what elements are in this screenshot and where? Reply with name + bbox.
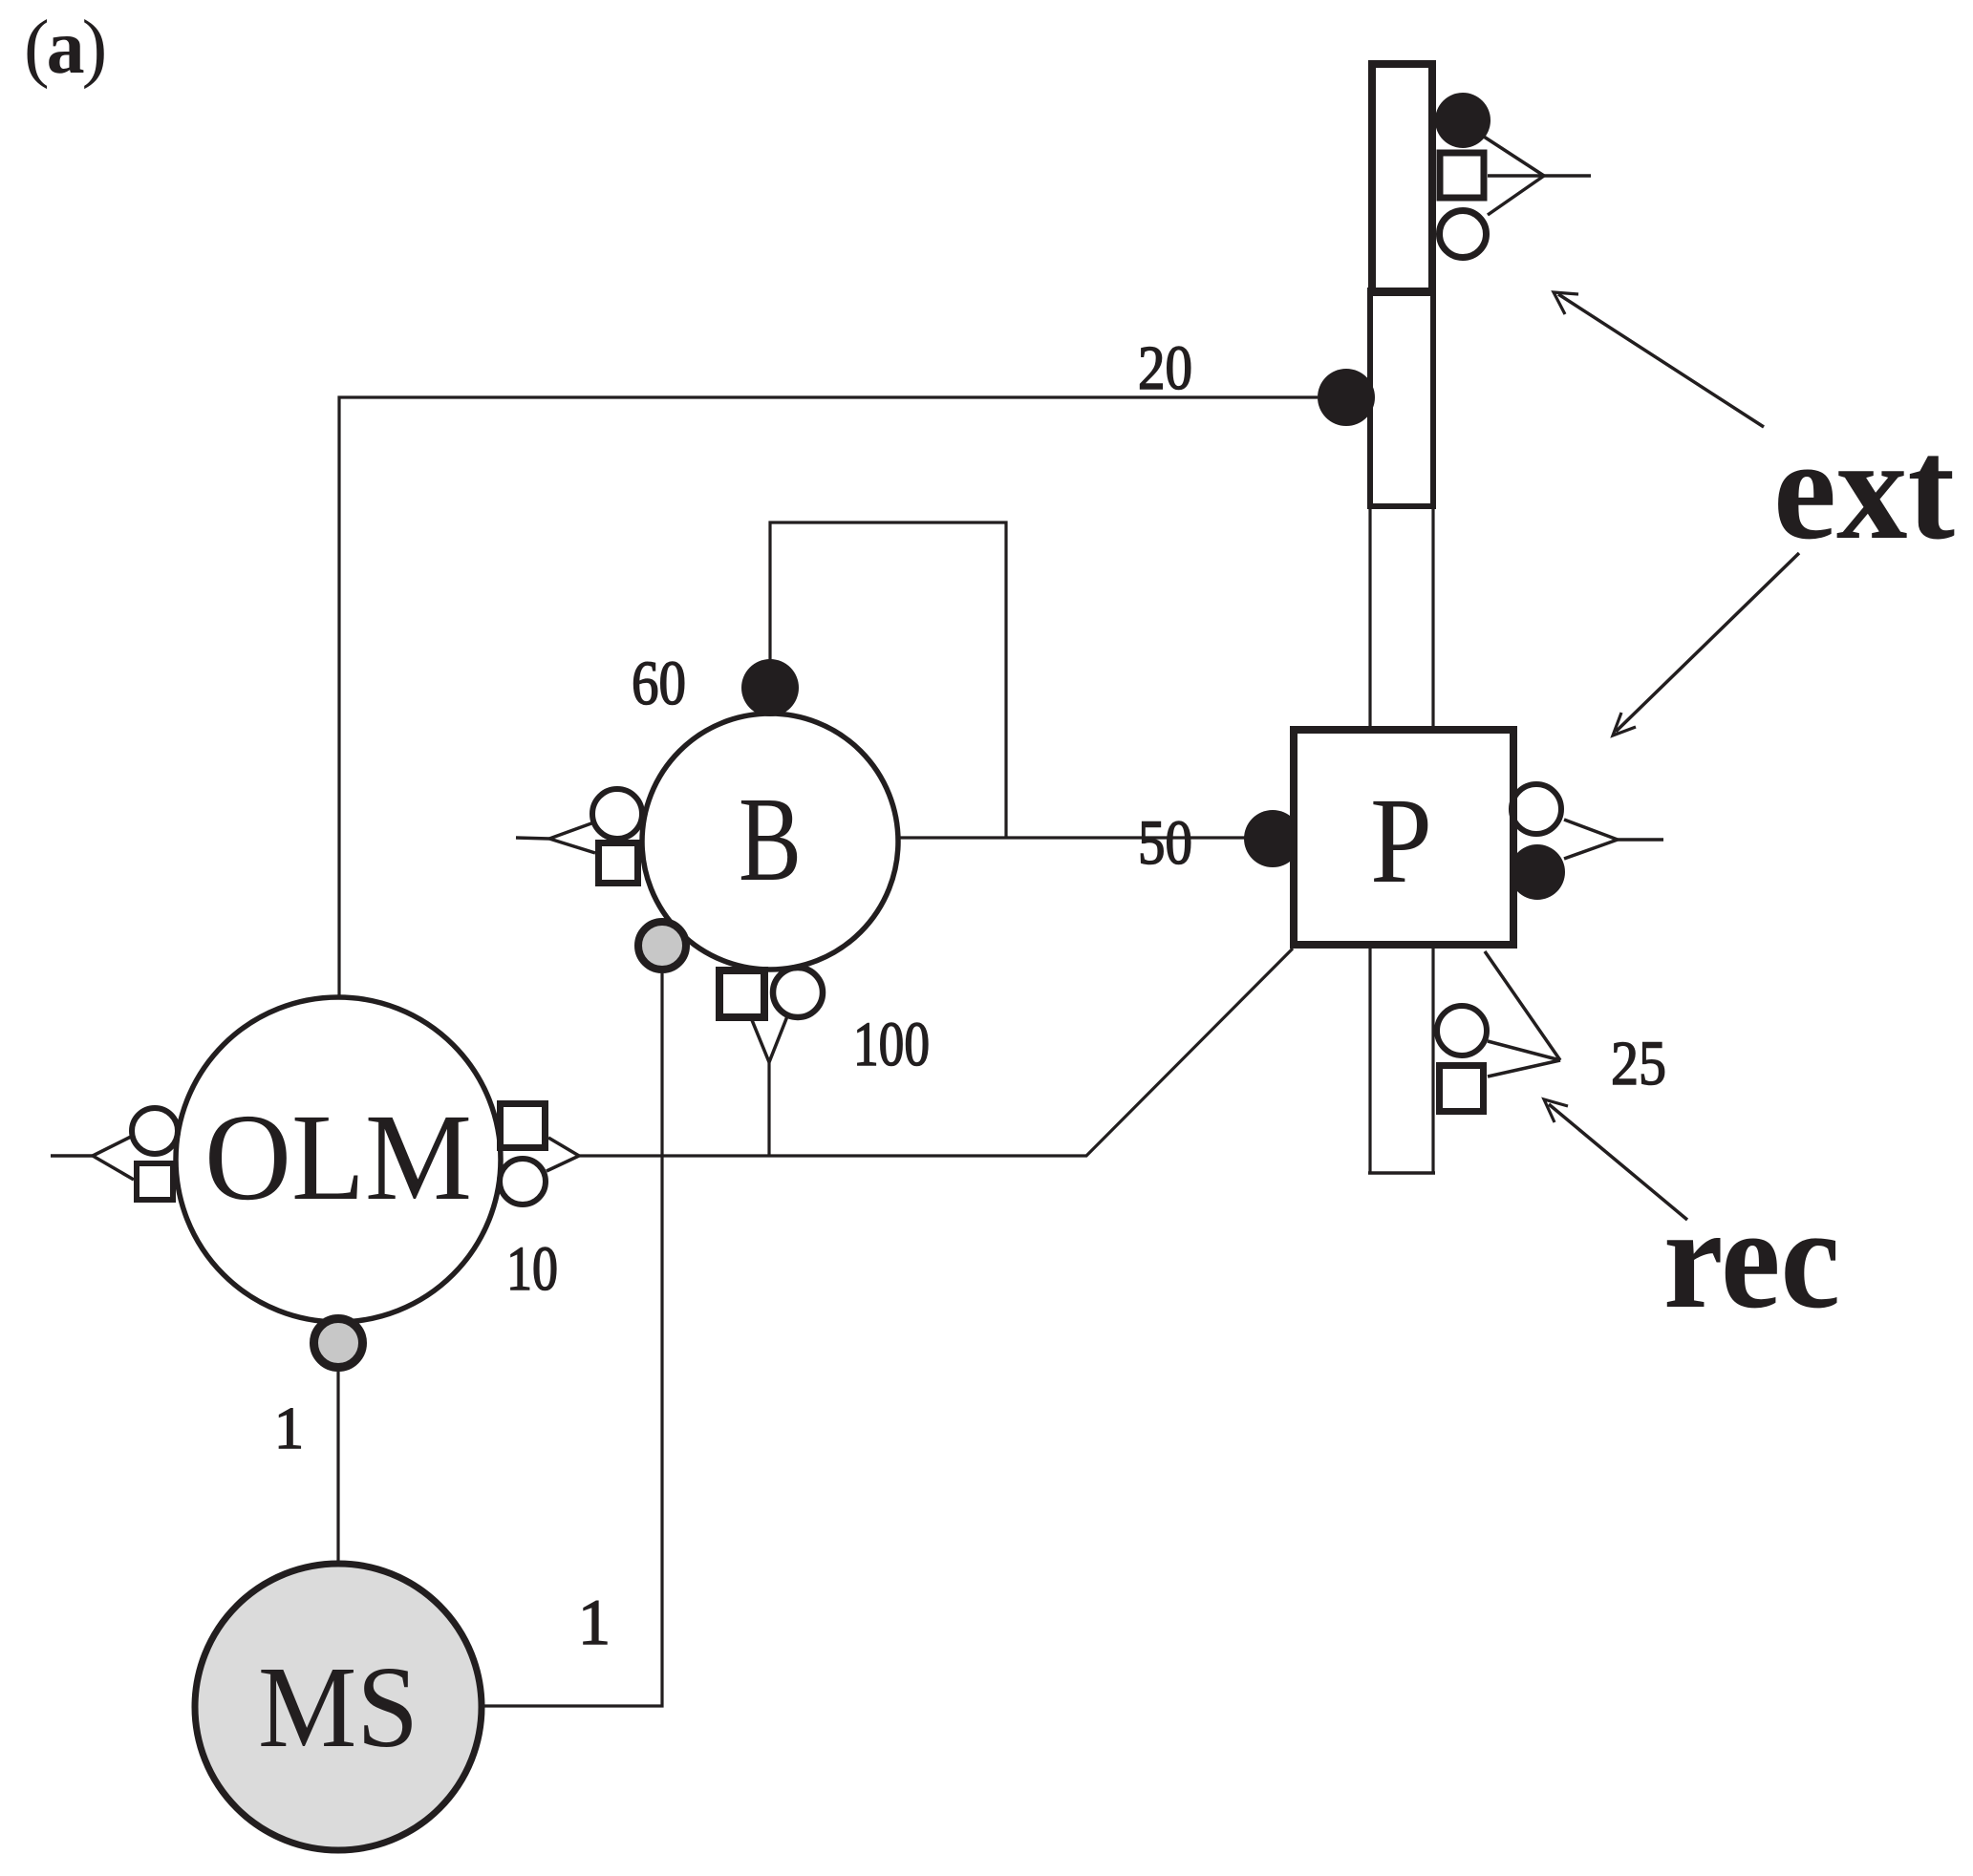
- synapse 1 from MS on OLM: gray bouton: [314, 1319, 363, 1368]
- B output synapse 100: open circle: [773, 968, 823, 1017]
- P cell apical dendrite: proximal segment (thin): [1370, 509, 1433, 728]
- wire 100: down to rec wire: [767, 1062, 770, 1156]
- svg-text:10: 10: [506, 1234, 558, 1304]
- synapse 1 from MS on B: gray bouton: [638, 922, 686, 970]
- ext input synapse on B: open circle: [592, 789, 642, 839]
- svg-text:MS: MS: [258, 1643, 418, 1772]
- wire rec: OLM axon to P basal dendrite: [579, 949, 1293, 1156]
- svg-text:ext: ext: [1773, 409, 1955, 569]
- B cell body: [642, 714, 898, 970]
- wire: B recurrent loop to B/P wire: [770, 522, 1006, 837]
- B output synapse 100: square receptor: [719, 970, 764, 1017]
- svg-text:60: 60: [632, 649, 686, 718]
- svg-text:P: P: [1370, 773, 1432, 908]
- OLM output synapse 10: square receptor: [501, 1104, 546, 1148]
- synapse 20: black bouton on dendrite: [1318, 369, 1375, 426]
- ext input synapse on OLM: open circle: [132, 1108, 178, 1154]
- svg-text:1: 1: [274, 1396, 304, 1461]
- svg-text:50: 50: [1138, 808, 1192, 878]
- svg-text:OLM: OLM: [204, 1089, 472, 1226]
- wire 1: MS axon to B: [483, 973, 662, 1706]
- svg-text:25: 25: [1611, 1029, 1666, 1098]
- svg-text:(a): (a): [24, 6, 105, 90]
- wire 20: B axon to P dendrite: [339, 397, 1318, 999]
- rec arrow: [1544, 1099, 1687, 1220]
- svg-text:1: 1: [578, 1586, 611, 1658]
- rec axon from P to synapse 25: [1485, 951, 1560, 1077]
- ext synapse group on distal dendrite: square receptor: [1440, 153, 1484, 198]
- OLM output V to rec axon: [547, 1138, 579, 1171]
- svg-text:100: 100: [853, 1010, 930, 1079]
- synapse 50: black bouton on P: [1244, 810, 1301, 867]
- panel label (a): [24, 6, 105, 90]
- ext axon triangle on distal dendrite: [1484, 137, 1591, 215]
- ext arrow upper: [1554, 292, 1764, 427]
- svg-text:B: B: [739, 774, 802, 906]
- ext arrow lower: [1613, 553, 1799, 735]
- B output synapse 100: V to axon: [752, 1016, 787, 1062]
- MS cell body: [195, 1564, 482, 1850]
- ext input synapse on B: square receptor: [599, 843, 638, 884]
- OLM output synapse 10: open circle: [500, 1159, 546, 1204]
- P output V to axon (right): [1564, 820, 1663, 859]
- svg-text:rec: rec: [1663, 1178, 1840, 1338]
- ext axon triangle into B: [516, 823, 595, 853]
- OLM cell body: [176, 997, 501, 1322]
- wire 1: MS axon to OLM: [336, 1372, 339, 1565]
- P cell basal dendrite segment (below P): [1368, 947, 1435, 1173]
- P cell apical dendrite: distal segment: [1372, 64, 1432, 292]
- P cell apical dendrite: middle segment: [1370, 290, 1433, 506]
- wire: B axon to P: [898, 836, 1245, 839]
- P output synapse right: open circle: [1512, 784, 1561, 834]
- rec synapse 25 on basal dendrite: open circle: [1437, 1006, 1487, 1055]
- ext synapse group on distal dendrite: open circle: [1440, 211, 1487, 258]
- svg-text:20: 20: [1138, 333, 1192, 403]
- ext input synapse on OLM: square receptor: [137, 1163, 173, 1200]
- synapse 60: black bouton on B: [741, 659, 799, 716]
- rec synapse 25 on basal dendrite: square receptor: [1440, 1066, 1484, 1112]
- ext synapse group on distal dendrite: black bouton: [1435, 93, 1490, 148]
- P output synapse right: black bouton: [1510, 844, 1565, 900]
- P cell body: [1294, 730, 1513, 945]
- ext axon triangle into OLM: [51, 1137, 134, 1180]
